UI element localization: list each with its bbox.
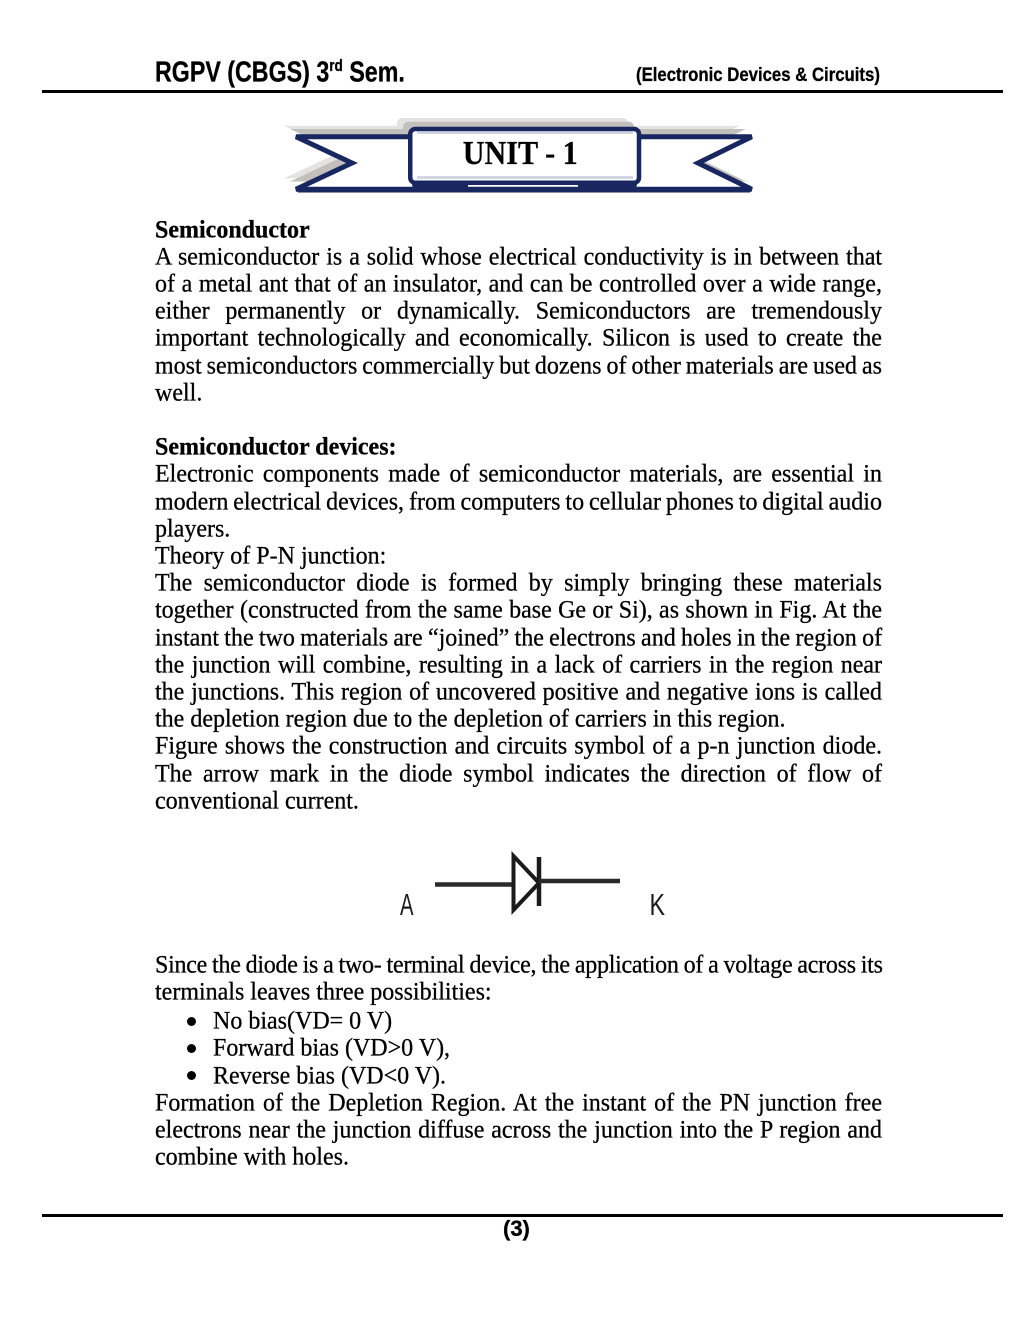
left fold tab bbox=[412, 176, 468, 191]
box inner top highlight bbox=[417, 131, 633, 134]
strip bottom thick edge bbox=[298, 188, 750, 193]
diode figure bbox=[0, 0, 1020, 1000]
UNIT-1 ribbon banner bbox=[0, 0, 1020, 230]
mid shadow copy bbox=[290, 122, 746, 182]
Section: Semiconductor devices bbox=[155, 433, 882, 463]
header rule bbox=[42, 90, 1003, 94]
Section: Semiconductor bbox=[155, 216, 882, 246]
diode triangle bbox=[514, 856, 540, 910]
svg-text:K: K bbox=[650, 887, 666, 922]
Section: Since the diode bbox=[155, 951, 882, 981]
anode wire bbox=[435, 882, 514, 887]
ribbon strip with swallowtail ends bbox=[296, 137, 752, 190]
header right: (Electronic Devices & Circuits) bbox=[636, 64, 880, 87]
footer rule bbox=[42, 1214, 1003, 1217]
cathode bar bbox=[537, 857, 542, 906]
svg-text:A: A bbox=[400, 887, 414, 922]
bullets bbox=[187, 1017, 196, 1026]
central box bbox=[410, 129, 639, 183]
header left: RGPV (CBGS) 3rd Sem. bbox=[155, 56, 405, 90]
right fold tab bbox=[578, 176, 637, 191]
box inner bottom highlight bbox=[417, 176, 633, 179]
light shadow copy bbox=[284, 118, 740, 178]
footer page number (3) bbox=[503, 1216, 530, 1242]
cathode wire bbox=[539, 879, 620, 884]
